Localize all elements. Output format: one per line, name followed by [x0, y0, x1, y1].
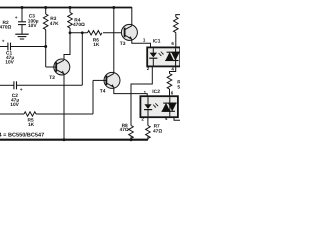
resistor R9 top right: [174, 15, 181, 48]
svg-text:IC1: IC1: [153, 38, 161, 44]
svg-text:T4: T4: [100, 88, 106, 94]
triac in IC2: [169, 97, 171, 116]
node junction C1 R3: [44, 45, 47, 48]
svg-text:10V: 10V: [10, 102, 19, 108]
ground: [15, 34, 28, 39]
svg-text:470Ω: 470Ω: [73, 22, 85, 28]
wire top supply rail: [0, 7, 132, 9]
resistor R8: [129, 126, 134, 140]
svg-text:+: +: [15, 16, 18, 21]
transistor T3: [121, 7, 150, 47]
resistor R4: [68, 7, 73, 33]
emitter arrow T4: [111, 84, 114, 87]
svg-text:T2: T2: [49, 75, 55, 81]
resistor R6: [88, 31, 125, 35]
svg-text:+: +: [20, 88, 23, 93]
emitter arrow T2: [61, 71, 64, 74]
pin 2 wire IC1 to R8: [131, 67, 152, 126]
node junction R8 rail: [130, 138, 133, 141]
wire T4 base: [92, 80, 94, 114]
svg-text:+: +: [2, 39, 5, 44]
node junction R3 rail: [44, 6, 47, 9]
wire T2 collector: [64, 33, 70, 60]
svg-text:1: 1: [143, 37, 146, 42]
pin 2 wire IC2 / resistor R7: [146, 117, 151, 140]
svg-text:6: 6: [171, 41, 174, 46]
svg-text:1: 1: [144, 90, 147, 95]
svg-text:47Ω: 47Ω: [120, 127, 129, 133]
transistor T2: [46, 59, 70, 140]
svg-text:6: 6: [171, 90, 174, 95]
LED in IC2: [144, 104, 151, 109]
triac in IC1: [175, 48, 177, 65]
svg-text:10V: 10V: [5, 59, 14, 65]
node junction R4 collector: [69, 31, 72, 34]
svg-text:10V: 10V: [28, 23, 37, 29]
svg-text:47Ω: 47Ω: [153, 129, 162, 135]
svg-text:4: 4: [171, 67, 174, 72]
node junction T2 emitter rail: [63, 138, 66, 141]
opto-triac IC1: [147, 47, 180, 66]
node junction C2 branch: [81, 31, 84, 34]
svg-text:1K: 1K: [28, 122, 35, 128]
svg-text:470Ω: 470Ω: [0, 25, 12, 31]
transistor T4: [93, 7, 147, 96]
node junction C3 top rail: [21, 6, 24, 9]
opto-triac IC2: [140, 96, 178, 117]
capacitor C2: [0, 81, 82, 89]
node junction R4 rail: [69, 6, 72, 9]
svg-text:IC2: IC2: [152, 89, 160, 95]
wire bottom rail: [0, 139, 148, 141]
svg-text:T3: T3: [120, 41, 126, 47]
svg-text:56: 56: [177, 85, 180, 91]
capacitor C1: [0, 43, 46, 51]
emitter arrow T3: [129, 36, 132, 39]
node junction T4 collector rail: [112, 6, 115, 9]
svg-text:4 = BC550/BC547: 4 = BC550/BC547: [0, 132, 44, 138]
LED in IC1: [150, 53, 157, 58]
resistor R3: [43, 7, 48, 67]
LED arrows IC1: [159, 53, 161, 56]
wire C2 branch down: [81, 33, 83, 86]
wire R4 to R6 node: [70, 32, 88, 34]
svg-text:1K: 1K: [93, 42, 100, 48]
pin 4 wire IC2: [174, 117, 180, 120]
svg-text:47K: 47K: [50, 21, 59, 27]
resistor R5: [0, 112, 93, 116]
LED arrows IC2: [153, 105, 155, 108]
resistor R10 between IC1 pin4 and IC2 pin6: [167, 66, 176, 96]
capacitor C3: [18, 7, 26, 34]
